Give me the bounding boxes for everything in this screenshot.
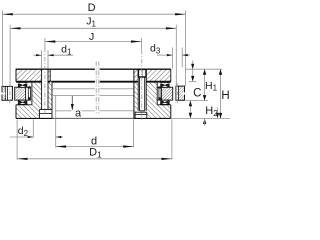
svg-text:H: H (221, 90, 229, 102)
bottom recess (right) (135, 111, 147, 113)
screw shank (139, 77, 141, 111)
outer ring bottom half (left): hatched region (16, 82, 42, 119)
hatched strip left of bolt (134, 69, 138, 82)
band outline (16, 68, 51, 70)
dimension d (56, 119, 134, 147)
dimension d3 (157, 48, 190, 69)
right side height dimension reference lines (185, 68, 222, 70)
bottom axial roller set (left) (18, 100, 31, 104)
svg-text:J: J (89, 31, 94, 43)
protrusion hole axis (9, 83, 11, 103)
block bottom (16, 117, 52, 119)
wire: top face edge y=69.2 (50, 68, 95, 70)
inner ring wedge (left) (15, 87, 26, 100)
svg-text:d: d (91, 135, 97, 147)
dimension D (2, 11, 185, 87)
wire: bottom face edge y=118.4 (52, 117, 134, 119)
dimension H2 left shaft (189, 101, 192, 119)
wire: far-side edge y=110.8 (56, 110, 72, 112)
protrusion hole axis (right) (176, 83, 178, 103)
label a (75, 111, 81, 118)
cavity mouth bottom edge (16, 104, 32, 106)
split notch on OD (right) (181, 93, 185, 95)
svg-text:d2: d2 (18, 125, 29, 138)
interruption dash-dot pair (95, 62, 97, 114)
svg-text:J1: J1 (86, 16, 96, 29)
dimension H (219, 69, 222, 118)
svg-text:D: D (88, 2, 96, 14)
radial roller (right) (158, 86, 161, 99)
cavity inner wall (31, 82, 33, 105)
bottom recess (left) (39, 109, 41, 111)
lower ring top edge inside right section (134, 81, 138, 83)
outer ring top half (left): hatched band with bolt hole (16, 69, 42, 82)
top axial roller set (right) (157, 82, 170, 87)
bottom part right edge (51, 82, 53, 110)
wire: far-side edge y=88.8 (53, 88, 95, 90)
top axial roller set (left) (18, 82, 31, 87)
screw axis (141, 50, 143, 121)
dimension D1 (17, 119, 172, 160)
svg-text:D1: D1 (89, 147, 102, 160)
svg-text:H2: H2 (205, 105, 218, 118)
dimension J (45, 38, 141, 50)
svg-text:a: a (75, 107, 82, 119)
screw head (138, 69, 146, 77)
wire: lower ring top edge y=81.7 (50, 81, 95, 83)
svg-text:C: C (193, 87, 201, 99)
svg-text:H1: H1 (205, 80, 218, 93)
outer-ring flange at OD (right protrusion) (176, 86, 185, 100)
hole bottom (42, 109, 48, 111)
dimension a (down arrow) (71, 96, 74, 111)
svg-text:d1: d1 (61, 44, 72, 57)
dimension d1 (33, 50, 73, 68)
fixing screw: hole walls (137, 69, 139, 111)
outer-ring flange at OD (left protrusion) (2, 86, 12, 100)
dimension d2 (10, 96, 63, 148)
split notch on OD (left) (1, 93, 5, 95)
bolt hole walls (left section) (41, 69, 43, 109)
wire: far-side edge y=95.5 (53, 95, 95, 97)
cavity (right) (156, 82, 158, 105)
svg-text:d3: d3 (150, 43, 161, 56)
block outline (134, 68, 171, 70)
axis of bolt hole (left) (44, 48, 46, 114)
dimension C (191, 61, 194, 82)
bottom axial roller set (right) (157, 100, 170, 104)
radial roller (left) (28, 86, 31, 99)
inner ring wedge (right) (161, 87, 172, 100)
dimension H1 (203, 69, 206, 126)
dimension J1 (10, 25, 176, 100)
main body (146, 69, 171, 82)
